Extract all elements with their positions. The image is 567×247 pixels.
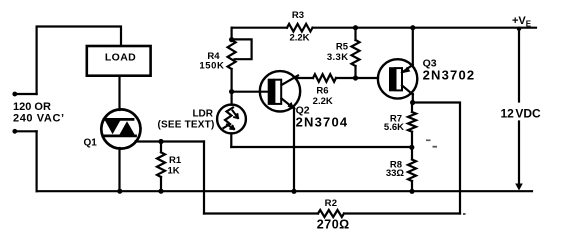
svg-text:12VDC: 12VDC bbox=[501, 107, 542, 121]
wire 12VDC right vertical upper segment bbox=[518, 29, 520, 102]
node R1-rail junction bbox=[158, 189, 163, 194]
svg-text:LDR: LDR bbox=[192, 109, 213, 120]
svg-text:240 VAC’: 240 VAC’ bbox=[13, 113, 65, 125]
svg-text:LOAD: LOAD bbox=[105, 52, 136, 64]
wire R8 leads bbox=[411, 148, 413, 192]
wire R2 right vertical up to Q3 collector node bbox=[413, 103, 460, 214]
transistor Q3 inner plate bbox=[396, 68, 403, 90]
node Q2 emitter-rail junction bbox=[291, 189, 296, 194]
wire left vertical down to bottom rail bbox=[35, 131, 37, 191]
wire R7 leads bbox=[411, 103, 413, 148]
transistor Q3 circle bbox=[378, 59, 417, 98]
svg-text:150K: 150K bbox=[199, 61, 224, 72]
svg-text:3.3K: 3.3K bbox=[327, 52, 349, 63]
node lower AC terminal dot bbox=[12, 129, 17, 134]
svg-text:2.2K: 2.2K bbox=[313, 96, 333, 107]
LOAD box bbox=[87, 46, 151, 76]
photocell LDR arrow 1 bbox=[233, 111, 239, 119]
wire Q2 emitter to rail bbox=[293, 108, 295, 191]
svg-text:5.6K: 5.6K bbox=[384, 122, 404, 133]
svg-text:2N3702: 2N3702 bbox=[423, 68, 476, 83]
wire AC upper terminal bbox=[15, 93, 37, 95]
wire AC top: left vertical up and across to LOAD bbox=[37, 27, 121, 95]
triac Q1 left triangle bbox=[105, 120, 121, 135]
resistor R4 zigzag bbox=[228, 40, 236, 69]
node R5/R6 junction bbox=[353, 75, 358, 80]
svg-text:R2: R2 bbox=[325, 198, 338, 209]
transistor Q3 emitter diagonal bbox=[402, 65, 413, 73]
triac Q1 circle bbox=[101, 109, 140, 148]
wire R4 shorting link rectangle bbox=[232, 39, 252, 59]
svg-text:1K: 1K bbox=[168, 166, 180, 177]
wire R6 line from Q2 collector to Q3 base bbox=[296, 77, 378, 79]
node Q3 emitter-rail junction bbox=[410, 25, 415, 30]
resistor R3 zigzag bbox=[287, 24, 313, 32]
wire AC lower terminal bbox=[15, 130, 37, 132]
resistor R2 zigzag bbox=[318, 210, 344, 217]
node gate/R1 junction bbox=[158, 139, 163, 144]
node R8-rail junction bbox=[409, 189, 414, 194]
resistor R1 zigzag bbox=[157, 152, 165, 177]
wire R2 line bbox=[204, 212, 460, 214]
wire Q2 base bbox=[232, 91, 268, 93]
node +V rail / 12VDC line junction bbox=[517, 27, 521, 31]
wire 12VDC right vertical lower segment bbox=[518, 122, 520, 188]
svg-text:R5: R5 bbox=[336, 42, 349, 53]
transistor Q3 collector diagonal bbox=[402, 86, 413, 95]
wire R5 leads bbox=[354, 28, 356, 78]
svg-text:R1: R1 bbox=[169, 155, 182, 166]
transistor Q2 collector diagonal bbox=[282, 76, 299, 86]
wire Q3 collector down bbox=[412, 94, 414, 103]
node R4/LDR/Q2-base junction bbox=[229, 89, 234, 94]
svg-text:Q1: Q1 bbox=[84, 138, 98, 149]
transistor Q2 circle bbox=[260, 71, 300, 111]
wire R4 bottom lead to base node bbox=[231, 69, 233, 105]
wire Q3 emitter up to rail bbox=[412, 28, 414, 65]
node upper AC terminal dot bbox=[12, 92, 17, 97]
speck marks bbox=[426, 140, 466, 216]
photocell LDR circle bbox=[217, 105, 246, 134]
node 12VDC arrowhead at rail bbox=[515, 184, 523, 191]
transistor Q2 inner plate bbox=[274, 80, 281, 104]
svg-text:33Ω: 33Ω bbox=[386, 168, 405, 179]
svg-text:270Ω: 270Ω bbox=[317, 218, 350, 232]
wire gate down to R2 line bbox=[203, 142, 205, 214]
wire bottom ground rail bbox=[37, 190, 532, 192]
node Q3 collector / R7 junction bbox=[410, 100, 415, 105]
node R4 top / link junction bbox=[229, 37, 234, 42]
wire triac Q1 bottom to rail bbox=[118, 148, 120, 191]
triac Q1 bottom bar bbox=[104, 134, 136, 137]
svg-text:R6: R6 bbox=[316, 86, 328, 97]
wire R4 top lead bbox=[231, 28, 233, 40]
wire LDR bottom lead bbox=[230, 133, 232, 147]
svg-text:(SEE TEXT): (SEE TEXT) bbox=[157, 120, 214, 131]
wire triac gate bbox=[136, 140, 205, 142]
resistor R5 zigzag bbox=[352, 40, 360, 66]
resistor R6 zigzag bbox=[313, 74, 336, 82]
svg-text:120 OR: 120 OR bbox=[13, 101, 51, 113]
svg-text:R3: R3 bbox=[292, 10, 304, 21]
wire LOAD bottom to triac Q1 top bbox=[118, 76, 120, 110]
photocell LDR inner zigzag bbox=[224, 108, 234, 129]
node triac-rail junction bbox=[117, 189, 122, 194]
transistor Q2 base bar bbox=[268, 79, 275, 105]
transistor Q3 emitter arrowhead bbox=[403, 67, 410, 73]
transistor Q2 emitter arrowhead bbox=[288, 102, 295, 110]
svg-text:2.2K: 2.2K bbox=[289, 33, 309, 44]
svg-text:2N3704: 2N3704 bbox=[296, 115, 349, 130]
triac Q1 right triangle bbox=[119, 121, 136, 136]
node R5-rail junction bbox=[353, 25, 358, 30]
transistor Q3 base bar bbox=[389, 67, 396, 91]
resistor R7 zigzag bbox=[408, 112, 416, 132]
transistor Q2 emitter diagonal bbox=[282, 99, 295, 109]
wire +V top rail bbox=[232, 27, 536, 29]
wire R1 leads bbox=[160, 142, 162, 192]
triac Q1 top bar bbox=[104, 118, 133, 121]
wire LDR line to R7/R8 node bbox=[231, 146, 411, 148]
resistor R8 zigzag bbox=[408, 160, 416, 182]
photocell LDR arrow 2 bbox=[227, 125, 234, 130]
node R7/R8/LDR-line junction bbox=[409, 145, 414, 150]
